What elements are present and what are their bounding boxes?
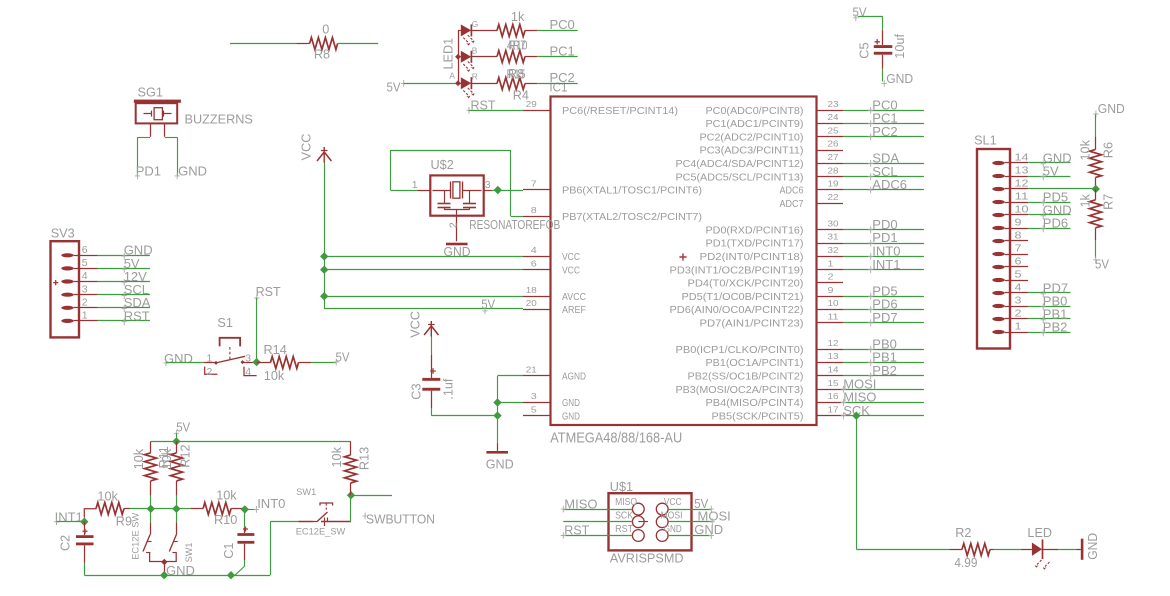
switch S1 contact 3 <box>241 360 245 364</box>
IC1 pin 28 (PC5(ADC5/SCL/PCINT13)) stub <box>817 176 844 178</box>
IC1 pin 14 (PB2(SS/OC1B/PCINT2)) stub <box>817 375 844 377</box>
svg-text:5V: 5V <box>1095 256 1109 271</box>
IC1 pin 1 (PD3(INT1/OC2B/PCINT19)) stub <box>817 269 844 271</box>
resistor R9 <box>84 509 96 517</box>
wire VCC to pin4 <box>324 256 523 258</box>
svg-text:12: 12 <box>1015 178 1029 190</box>
wire SV3 net GND <box>98 255 150 257</box>
wire net SCK <box>843 415 924 417</box>
switch S1 blade <box>216 356 245 363</box>
svg-text:SL1: SL1 <box>974 133 997 147</box>
diode LED <box>1021 549 1032 551</box>
svg-text:26: 26 <box>828 139 839 149</box>
svg-text:VCC: VCC <box>408 311 422 338</box>
resistor LED B <box>497 51 525 63</box>
svg-text:0: 0 <box>322 23 329 37</box>
junction SCK <box>852 412 860 420</box>
capacitor C1 <box>244 509 246 528</box>
svg-text:1k: 1k <box>511 10 525 24</box>
LED1 diode R <box>458 83 461 85</box>
wire SV3 net RST <box>98 320 150 322</box>
svg-text:AREF: AREF <box>562 305 586 316</box>
svg-text:R4: R4 <box>513 88 529 102</box>
SL1 pin 2 stub <box>1010 318 1028 320</box>
svg-text:15: 15 <box>828 378 839 388</box>
IC1 pin 9 (PD5(T1/OC0B/PCINT21)) stub <box>817 296 844 298</box>
svg-text:6: 6 <box>1015 256 1022 268</box>
wire SL1 net 5V <box>1028 176 1070 178</box>
SL1 pin 10 pad <box>992 213 1004 217</box>
resistor R14 <box>257 362 271 364</box>
resistor R12 <box>176 441 178 453</box>
resistor LED G <box>497 25 525 37</box>
svg-text:19: 19 <box>828 179 839 189</box>
wire RST to pin29 <box>469 110 523 112</box>
svg-text:PD7(AIN1/PCINT23): PD7(AIN1/PCINT23) <box>700 318 804 329</box>
SV3 pin 4 stub <box>79 281 98 283</box>
svg-text:7: 7 <box>531 179 537 189</box>
wire SL1 net GND <box>1028 162 1070 164</box>
svg-text:R14: R14 <box>264 343 287 357</box>
svg-text:AVRISPSMD: AVRISPSMD <box>610 552 684 566</box>
SL1 pin 14 stub <box>1010 162 1028 164</box>
wire net to R8 <box>230 43 296 45</box>
svg-text:6: 6 <box>82 244 88 256</box>
svg-text:VCC: VCC <box>562 252 580 263</box>
power VCC symbol 2 <box>424 326 438 335</box>
wire net SCL <box>843 176 924 178</box>
wire SW1h to R13 node <box>350 495 352 522</box>
svg-text:RST: RST <box>615 524 633 535</box>
svg-text:R: R <box>472 71 478 81</box>
resistor R7 <box>1095 189 1097 200</box>
buzzer SG1 symbol <box>144 113 152 115</box>
wire GND right <box>668 535 711 537</box>
wire XTAL loop to pin8 <box>511 216 523 218</box>
svg-text:R8: R8 <box>508 67 524 81</box>
svg-text:GND: GND <box>562 411 580 422</box>
wire R2 to LED <box>994 549 1021 551</box>
svg-text:10k: 10k <box>97 489 118 503</box>
SL1 pin 12 pad <box>992 187 1004 191</box>
wire LED R to resistor <box>471 83 497 85</box>
svg-text:4.99: 4.99 <box>954 556 977 570</box>
switch S1 pin1 <box>204 362 216 364</box>
SL1 pin 8 pad <box>992 239 1004 243</box>
C5 top pin <box>882 30 884 45</box>
wire R12 to sw node <box>176 495 178 508</box>
SG1 pin 2 stub <box>164 123 166 136</box>
LED1 diode B <box>458 56 461 58</box>
wire MISO left <box>563 509 632 511</box>
SL1 pin 3 stub <box>1010 306 1028 308</box>
svg-text:1: 1 <box>828 258 834 268</box>
svg-text:PB1(OC1A/PCINT1): PB1(OC1A/PCINT1) <box>706 358 804 369</box>
IC1 pin 7 (PB6(XTAL1/TOSC1/PCINT6)) stub <box>523 189 551 191</box>
svg-text:AGND: AGND <box>562 372 586 383</box>
U$1 pad right <box>656 516 668 528</box>
wire VCC rail <box>324 163 326 309</box>
wire R11 to sw node <box>150 495 152 508</box>
svg-text:GND: GND <box>694 522 723 537</box>
svg-text:14: 14 <box>1015 152 1029 164</box>
svg-text:1: 1 <box>82 310 88 322</box>
wire SL1 net PB2 <box>1028 332 1070 334</box>
IC1 pin 30 (PD0(RXD/PCINT16)) stub <box>817 229 844 231</box>
svg-text:GND: GND <box>444 244 471 259</box>
capacitor C5 <box>874 45 893 48</box>
SL1 pin 7 stub <box>1010 254 1028 256</box>
SL1 pin 9 stub <box>1010 228 1028 230</box>
capacitor C3 <box>422 378 440 381</box>
wire GND to R6 <box>1095 115 1097 137</box>
buzzer SG1 box <box>136 103 178 123</box>
svg-text:31: 31 <box>828 232 839 242</box>
SV3 pin 4 pad <box>61 279 73 283</box>
svg-text:VCC: VCC <box>300 134 314 161</box>
svg-text:.1uf: .1uf <box>441 378 455 400</box>
wire sw common to GND <box>164 562 166 572</box>
SL1 pin 4 pad <box>992 291 1004 295</box>
svg-text:5V: 5V <box>387 80 401 95</box>
wire GND to S1 <box>166 362 204 364</box>
svg-text:S1: S1 <box>217 316 233 330</box>
svg-text:3: 3 <box>245 352 251 364</box>
resistor R2 <box>950 549 963 551</box>
IC1 pin 19 (ADC6) stub <box>817 189 844 191</box>
svg-text:R7: R7 <box>1102 194 1116 210</box>
svg-text:U$2: U$2 <box>431 158 454 172</box>
svg-text:EC12E_SW: EC12E_SW <box>296 526 346 536</box>
IC1 pin 22 (ADC7) stub <box>817 203 844 205</box>
U$2 pin 1 stub <box>417 190 430 192</box>
SV3 pin 3 pad <box>61 293 73 297</box>
resistor LED R <box>497 78 525 90</box>
SV3 pin 1 stub <box>79 320 98 322</box>
svg-text:GND: GND <box>664 524 682 535</box>
wire AGND pin21 <box>498 375 524 377</box>
svg-text:27: 27 <box>828 152 839 162</box>
switch EC12E SW (left) <box>150 509 152 523</box>
svg-text:PD4(T0/XCK/PCINT20): PD4(T0/XCK/PCINT20) <box>688 279 804 290</box>
junction 5V rail <box>172 437 180 445</box>
SV3 pin 6 pad <box>61 253 73 257</box>
wire XTAL loop top <box>391 150 511 152</box>
svg-text:9: 9 <box>1015 217 1022 229</box>
wire SL1 pin12 to divider <box>1028 188 1096 190</box>
IC1 pin 16 (PB4(MISO/PCINT4)) stub <box>817 402 844 404</box>
IC1 pin 5 (GND) stub <box>523 415 551 417</box>
svg-text:11: 11 <box>1015 191 1029 203</box>
wire net INT1 <box>843 269 924 271</box>
svg-text:PC4(ADC4/SDA/PCINT12): PC4(ADC4/SDA/PCINT12) <box>676 159 804 170</box>
IC1 pin 21 (AGND) stub <box>523 375 551 377</box>
svg-text:MISO: MISO <box>564 496 597 511</box>
svg-text:BUZZERNS: BUZZERNS <box>185 113 253 127</box>
svg-text:SCK: SCK <box>615 511 633 522</box>
svg-text:PC1: PC1 <box>550 43 575 58</box>
IC1 pin 15 (PB3(MOSI/OC2A/PCINT3)) stub <box>817 389 844 391</box>
resistor R10 <box>176 508 190 510</box>
svg-text:2: 2 <box>82 296 88 308</box>
svg-text:2: 2 <box>1015 308 1022 320</box>
IC1 pin 24 (PC1(ADC1/PCINT9)) stub <box>817 123 844 125</box>
LED1 anode bus <box>458 30 460 83</box>
junction C1 rail <box>227 571 235 579</box>
wire SV3 net SCL <box>98 294 150 296</box>
svg-text:14: 14 <box>828 365 839 375</box>
junction RST/S1 <box>252 358 260 366</box>
capacitor C2 plus <box>83 529 88 534</box>
wire VCC to pin6 <box>324 269 523 271</box>
svg-text:PC2: PC2 <box>550 70 575 85</box>
wire VCC right <box>668 509 711 511</box>
junction GND rail <box>160 571 168 579</box>
wire SV3 net SDA <box>98 307 150 309</box>
LED1 light arrows G <box>463 38 469 44</box>
svg-text:SV3: SV3 <box>51 227 75 241</box>
SV3 plus mark <box>53 280 58 285</box>
connector SV3 box <box>51 241 80 337</box>
svg-text:PC0(ADC0/PCINT8): PC0(ADC0/PCINT8) <box>706 106 804 117</box>
svg-text:4: 4 <box>82 270 88 282</box>
wire net PB2 <box>843 375 924 377</box>
svg-text:LED1: LED1 <box>442 38 456 70</box>
wire XTAL loop left <box>390 150 392 190</box>
SL1 pin 13 stub <box>1010 176 1028 178</box>
wire SL1 net PD6 <box>1028 228 1070 230</box>
junction INT1 <box>80 518 88 526</box>
IC1 pin 17 (PB5(SCK/PCINT5)) stub <box>817 415 844 417</box>
wire RST left <box>563 535 632 537</box>
junction divider <box>1092 185 1100 193</box>
wire SL1 net PD7 <box>1028 292 1070 294</box>
buzzer SG1 top bar <box>134 100 181 103</box>
svg-text:PD0(RXD/PCINT16): PD0(RXD/PCINT16) <box>706 225 804 236</box>
SL1 pin 11 pad <box>992 200 1004 204</box>
svg-text:PD7: PD7 <box>872 310 897 325</box>
SL1 pin 13 pad <box>992 174 1004 178</box>
svg-text:13: 13 <box>1015 165 1029 177</box>
svg-text:INT1: INT1 <box>872 257 900 272</box>
wire XTAL loop right <box>510 150 512 216</box>
svg-text:ATMEGA48/88/168-AU: ATMEGA48/88/168-AU <box>550 430 682 447</box>
svg-text:EC12E SW: EC12E SW <box>131 513 141 560</box>
IC1 pin 11 (PD7(AIN1/PCINT23)) stub <box>817 322 844 324</box>
SV3 pin 2 pad <box>61 306 73 310</box>
LED1 light arrows B <box>463 64 469 70</box>
wire C3 to GND node <box>431 391 433 408</box>
SL1 pin 12 stub <box>1010 188 1028 190</box>
IC1 pin 29 (PC6(/RESET/PCINT14)) stub <box>523 110 551 112</box>
svg-text:SWBUTTON: SWBUTTON <box>366 511 435 526</box>
svg-text:5V: 5V <box>481 297 495 312</box>
switch SW1 (middle) <box>176 509 178 523</box>
junction AVCC <box>320 292 328 300</box>
svg-text:PC2: PC2 <box>872 124 897 139</box>
svg-text:10k: 10k <box>132 448 146 469</box>
SV3 pin 2 stub <box>79 307 98 309</box>
svg-text:4: 4 <box>245 366 251 378</box>
junction INT0 <box>241 505 249 513</box>
svg-text:GND: GND <box>1098 101 1125 116</box>
wire between sw nodes <box>151 508 177 510</box>
svg-text:PB6(XTAL1/TOSC1/PCINT6): PB6(XTAL1/TOSC1/PCINT6) <box>562 186 702 197</box>
svg-text:10k: 10k <box>1079 139 1093 160</box>
svg-text:10: 10 <box>1015 204 1029 216</box>
U$1 pad left <box>632 503 644 515</box>
IC1 pin 25 (PC2(ADC2/PCINT10)) stub <box>817 136 844 138</box>
svg-text:RST: RST <box>124 308 150 323</box>
svg-text:R6: R6 <box>1102 142 1116 158</box>
wire net PC0 <box>843 110 924 112</box>
svg-text:32: 32 <box>828 245 839 255</box>
switch S1 pin4 <box>244 367 257 376</box>
wire resistor to net PC1 <box>525 56 537 58</box>
SL1 pin 2 pad <box>992 317 1004 321</box>
SL1 pin 1 stub <box>1010 332 1028 334</box>
U$2 internal capacitors <box>444 190 446 203</box>
wire SL1 net GND <box>1028 214 1070 216</box>
svg-text:MOSI: MOSI <box>661 511 683 522</box>
IC1 pin 13 (PB1(OC1A/PCINT1)) stub <box>817 362 844 364</box>
SL1 pin 11 stub <box>1010 202 1028 204</box>
IC1 pin 12 (PB0(ICP1/CLKO/PCINT0)) stub <box>817 349 844 351</box>
svg-text:GND: GND <box>1085 533 1100 560</box>
ground symbol (rotated) right <box>1081 539 1084 560</box>
svg-text:PD6: PD6 <box>1043 216 1068 231</box>
LED light arrows <box>1035 560 1041 566</box>
wire to SW1h <box>270 521 298 523</box>
wire net PC2 <box>843 136 924 138</box>
svg-text:PB0(ICP1/CLKO/PCINT0): PB0(ICP1/CLKO/PCINT0) <box>676 345 804 356</box>
svg-text:10k: 10k <box>160 448 174 469</box>
wire INT0 <box>245 509 256 511</box>
wire net PB1 <box>843 362 924 364</box>
IC1 pin 26 (PC3(ADC3/PCINT11)) stub <box>817 150 844 152</box>
svg-text:8: 8 <box>531 205 537 215</box>
svg-text:PB7(XTAL2/TOSC2/PCINT7): PB7(XTAL2/TOSC2/PCINT7) <box>562 212 702 223</box>
wire SG1 to PD1 <box>138 137 151 139</box>
U$2 pin 2 stub <box>456 216 458 242</box>
wire LED G to resistor <box>471 30 497 32</box>
wire net PC1 <box>843 123 924 125</box>
wire net PD1 <box>843 243 924 245</box>
svg-text:5: 5 <box>531 404 537 414</box>
SL1 pin 9 pad <box>992 226 1004 230</box>
SG1 pin 1 stub <box>150 123 152 136</box>
junction GND pin3 <box>493 398 501 406</box>
svg-text:INT0: INT0 <box>257 496 285 511</box>
U$1 pad left <box>632 516 644 528</box>
LED1 diode G <box>458 30 461 32</box>
wire R14 to 5V <box>311 362 336 364</box>
junction LED1 bus A <box>455 80 461 86</box>
svg-text:1k: 1k <box>1079 193 1093 207</box>
svg-text:PD5(T1/OC0B/PCINT21): PD5(T1/OC0B/PCINT21) <box>682 292 804 303</box>
wire XTAL loop to pin1 <box>391 190 418 192</box>
svg-text:RESONATOREFOB: RESONATOREFOB <box>469 218 560 232</box>
junction switches common <box>161 559 167 565</box>
svg-text:RST: RST <box>564 523 589 538</box>
wire VCC to AVCC pin18 <box>324 296 523 298</box>
wire net ADC6 <box>843 189 924 191</box>
svg-text:24: 24 <box>828 112 839 122</box>
switch S1 pin2 <box>205 367 218 375</box>
svg-text:13: 13 <box>828 351 839 361</box>
SV3 pin 1 pad <box>61 319 73 323</box>
wire SV3 net 12V <box>98 281 150 283</box>
svg-text:3: 3 <box>82 283 88 295</box>
IC1 pin 32 (PD2(INT0/PCINT18)) stub <box>817 256 844 258</box>
U$1 pad stub mid <box>638 521 648 523</box>
ground symbol under U$2 <box>446 243 468 246</box>
ground symbol under IC <box>486 451 508 454</box>
svg-text:LED: LED <box>1027 526 1052 540</box>
svg-text:PD6(AIN0/OC0A/PCINT22): PD6(AIN0/OC0A/PCINT22) <box>670 305 804 316</box>
wire SV3 net 5V <box>98 268 150 270</box>
svg-text:PC6(/RESET/PCINT14): PC6(/RESET/PCINT14) <box>562 106 678 117</box>
wire RST vertical <box>256 298 258 362</box>
svg-text:9: 9 <box>828 285 834 295</box>
IC1 pin 2 (PD4(T0/XCK/PCINT20)) stub <box>817 282 844 284</box>
wire SG1 to GND <box>165 137 177 139</box>
SL1 pin 8 stub <box>1010 240 1028 242</box>
wire rail up (SWBUTTON) <box>270 522 272 575</box>
svg-text:PC0: PC0 <box>550 17 575 32</box>
switch EC12E_SW (horizontal SW1) <box>298 521 313 523</box>
svg-text:R2: R2 <box>955 526 971 540</box>
IC1 pin 23 (PC0(ADC0/PCINT8)) stub <box>817 110 844 112</box>
wire MOSI right <box>668 521 712 523</box>
svg-text:GND: GND <box>886 71 913 86</box>
svg-text:1: 1 <box>207 352 213 364</box>
wire SCK left <box>563 521 632 523</box>
resistor R6 <box>1095 137 1097 150</box>
IC1 pin 10 (PD6(AIN0/OC0A/PCINT22)) stub <box>817 309 844 311</box>
capacitor C3 plus <box>430 368 436 374</box>
junction R13 <box>347 491 355 499</box>
svg-text:R8: R8 <box>314 48 330 62</box>
wire net PD5 <box>843 296 924 298</box>
svg-text:5: 5 <box>82 257 88 269</box>
svg-text:R10: R10 <box>509 39 528 53</box>
U$1 pad right <box>656 503 668 515</box>
svg-text:PB3(MOSI/OC2A/PCINT3): PB3(MOSI/OC2A/PCINT3) <box>676 385 804 396</box>
svg-text:10: 10 <box>828 298 839 308</box>
svg-text:C3: C3 <box>409 383 423 399</box>
svg-text:7: 7 <box>1015 243 1022 255</box>
svg-text:5: 5 <box>1015 269 1022 281</box>
SL1 pin 5 pad <box>992 278 1004 282</box>
LED1 light arrows R <box>463 90 469 96</box>
svg-text:11: 11 <box>828 311 839 321</box>
svg-text:ADC6: ADC6 <box>872 177 907 192</box>
wire 5V to C5 <box>858 16 883 18</box>
svg-text:4: 4 <box>1015 282 1022 294</box>
wire resistor to net PC0 <box>525 30 537 32</box>
svg-text:30: 30 <box>828 218 839 228</box>
svg-text:GND: GND <box>178 163 207 178</box>
svg-text:PC5(ADC5/SCL/PCINT13): PC5(ADC5/SCL/PCINT13) <box>676 172 804 183</box>
wire GND pin3 <box>498 402 524 404</box>
svg-text:16: 16 <box>828 391 839 401</box>
wire to ground symbol <box>497 444 499 451</box>
svg-text:GND: GND <box>486 457 514 472</box>
ic IC1 ATMEGA48/88/168-AU box <box>551 97 817 426</box>
svg-text:RST: RST <box>256 284 281 299</box>
wire SCK to R2 <box>856 549 949 551</box>
